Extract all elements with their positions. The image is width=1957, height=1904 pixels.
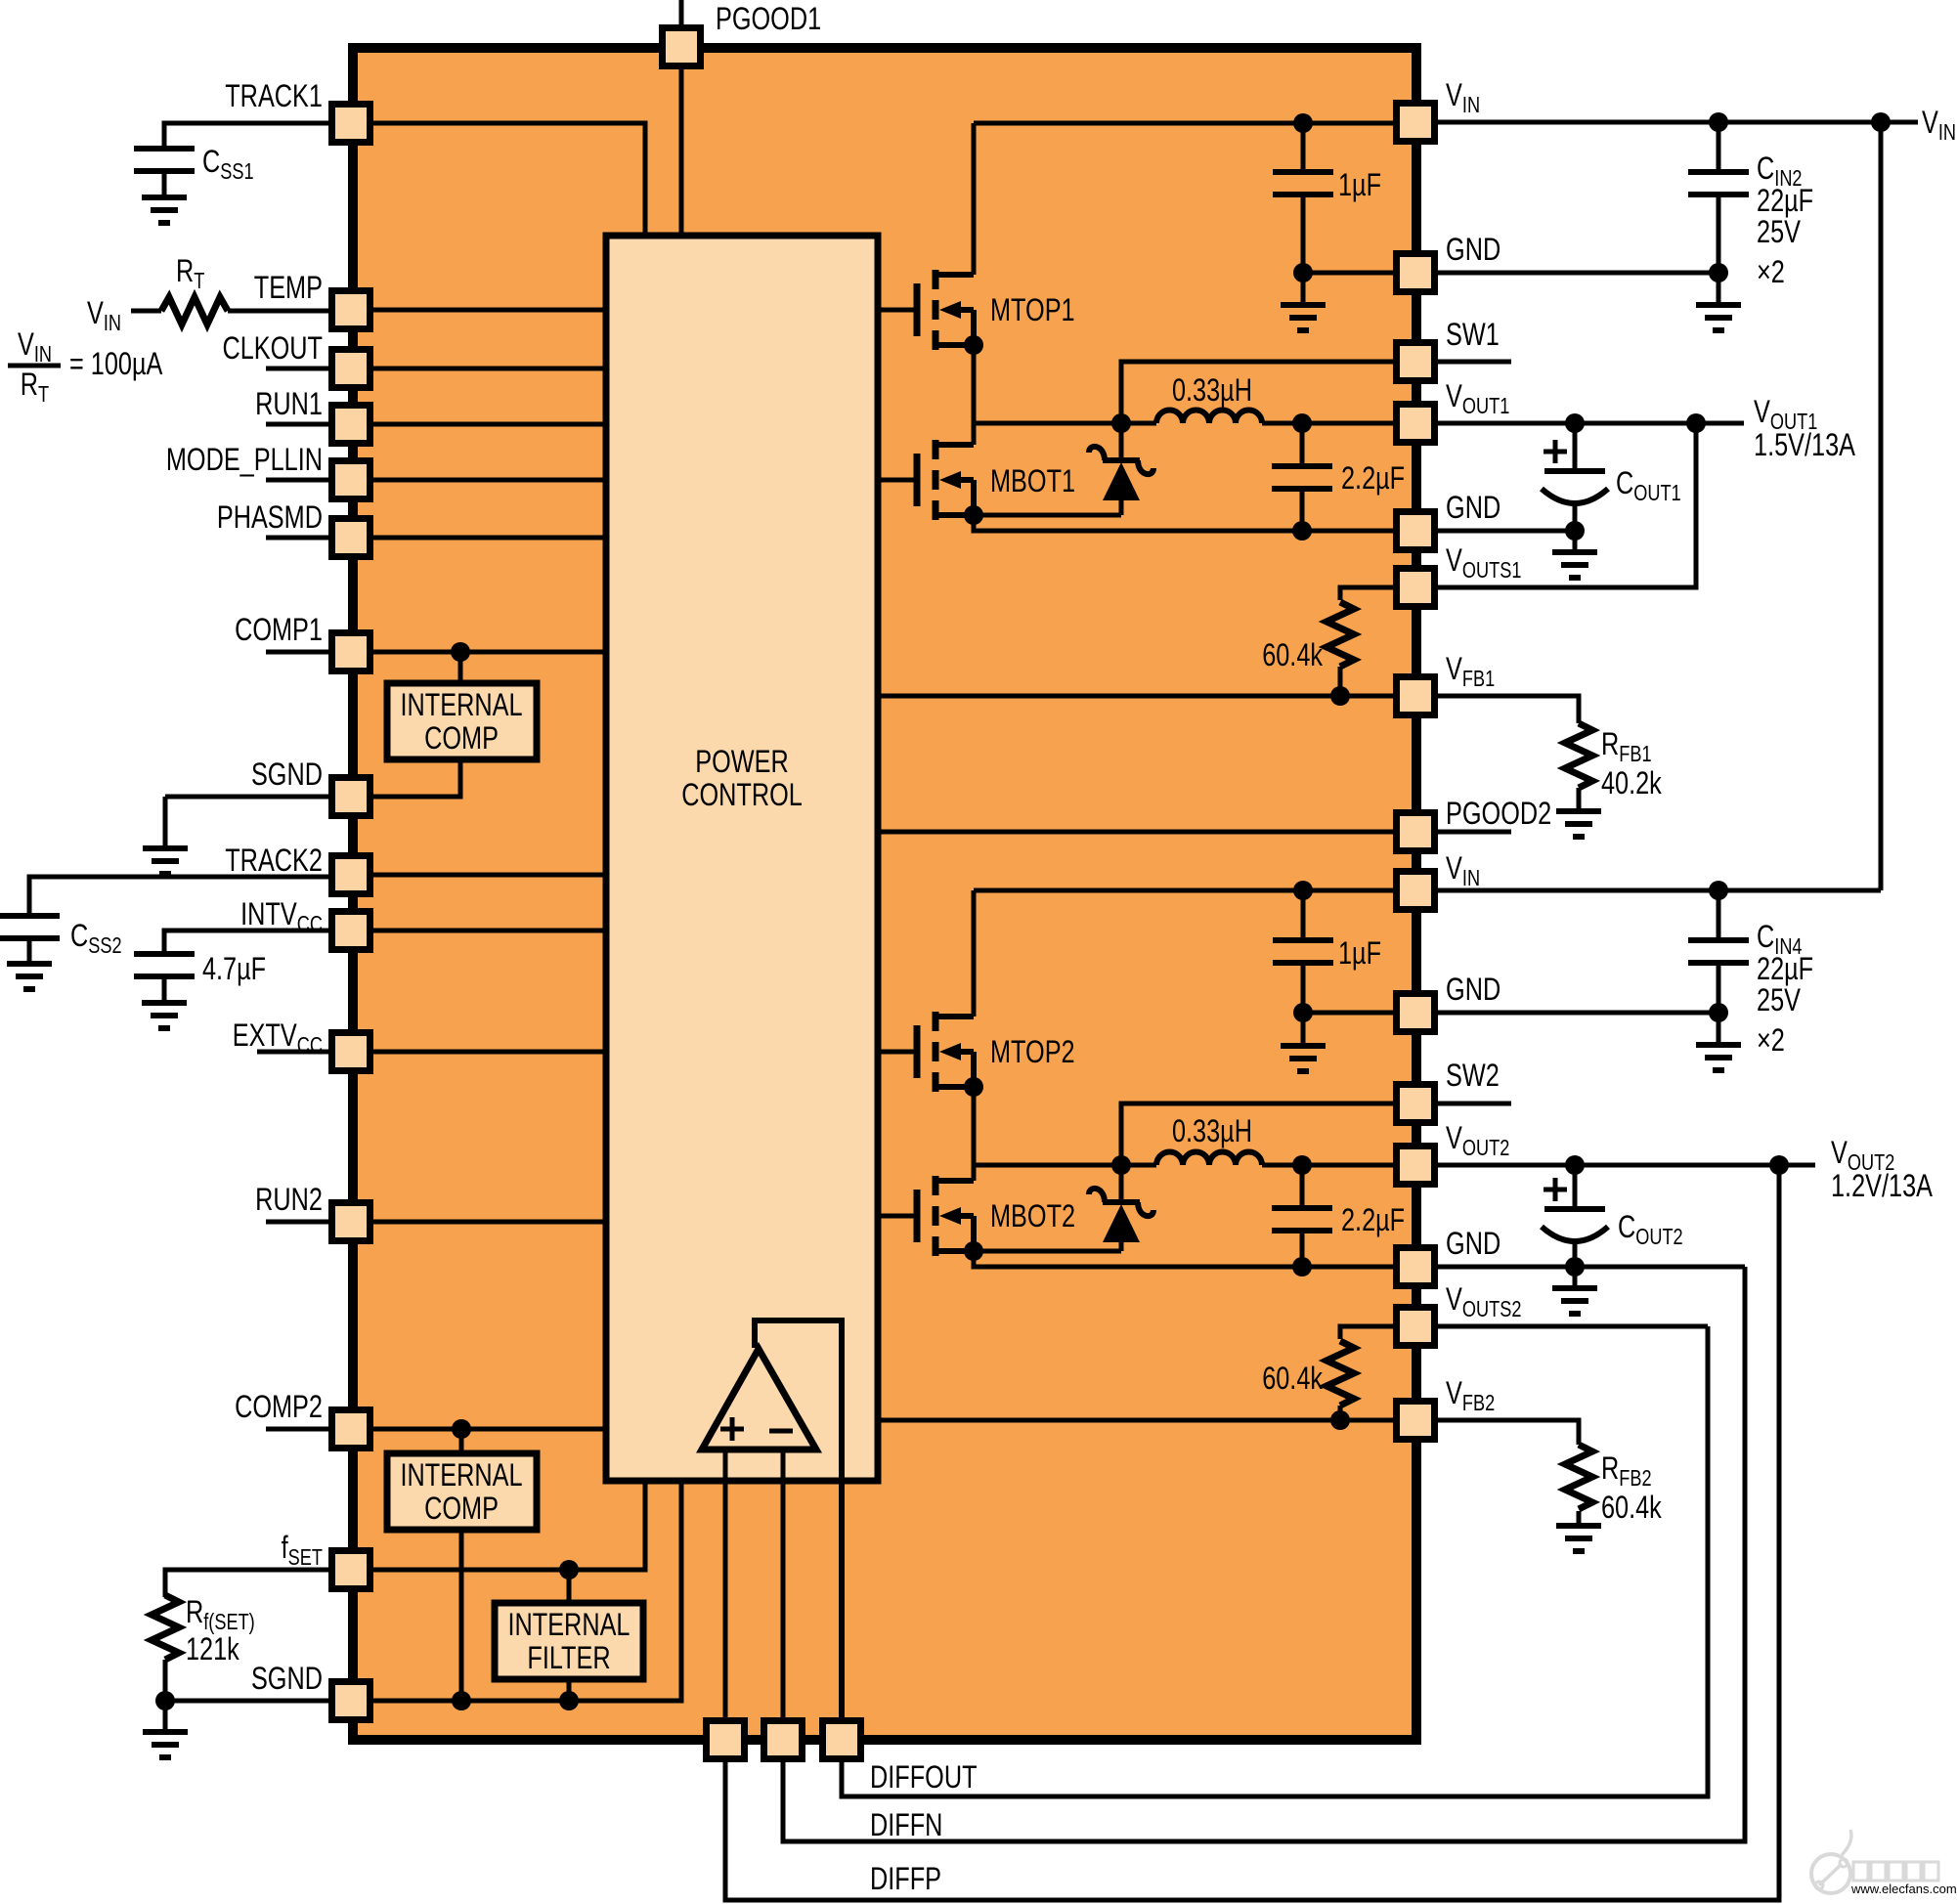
- svg-text:COMP: COMP: [424, 1492, 499, 1527]
- svg-text:RUN2: RUN2: [255, 1183, 323, 1218]
- svg-text:60.4k: 60.4k: [1262, 638, 1323, 673]
- svg-text:SGND: SGND: [251, 1662, 323, 1697]
- svg-text:SW2: SW2: [1446, 1059, 1500, 1094]
- svg-text:COMP: COMP: [424, 721, 499, 757]
- svg-text:×2: ×2: [1757, 255, 1785, 290]
- svg-text:PHASMD: PHASMD: [217, 500, 323, 536]
- svg-text:×2: ×2: [1757, 1023, 1785, 1059]
- svg-text:INTERNAL: INTERNAL: [401, 688, 523, 723]
- svg-text:22µF: 22µF: [1757, 184, 1813, 219]
- svg-text:1µF: 1µF: [1338, 936, 1381, 972]
- svg-text:= 100µA: = 100µA: [69, 347, 163, 382]
- svg-text:POWER: POWER: [695, 745, 788, 780]
- svg-text:1.5V/13A: 1.5V/13A: [1754, 428, 1856, 463]
- svg-text:www.elecfans.com: www.elecfans.com: [1850, 1882, 1957, 1896]
- svg-text:1µF: 1µF: [1338, 168, 1381, 203]
- svg-text:FILTER: FILTER: [527, 1641, 610, 1676]
- svg-text:DIFFN: DIFFN: [870, 1808, 942, 1843]
- svg-text:0.33µH: 0.33µH: [1172, 373, 1252, 409]
- svg-text:2.2µF: 2.2µF: [1341, 461, 1405, 497]
- svg-text:25V: 25V: [1757, 215, 1802, 250]
- svg-text:TRACK1: TRACK1: [225, 79, 323, 114]
- svg-text:DIFFP: DIFFP: [870, 1862, 941, 1897]
- svg-text:CLKOUT: CLKOUT: [222, 331, 323, 367]
- svg-text:1.2V/13A: 1.2V/13A: [1831, 1169, 1934, 1204]
- svg-text:PGOOD2: PGOOD2: [1446, 797, 1551, 832]
- svg-text:COMP1: COMP1: [235, 613, 323, 648]
- svg-text:MODE_PLLIN: MODE_PLLIN: [166, 443, 323, 478]
- svg-text:MBOT1: MBOT1: [990, 464, 1075, 499]
- svg-text:MBOT2: MBOT2: [990, 1199, 1075, 1234]
- svg-text:TRACK2: TRACK2: [225, 844, 323, 879]
- svg-text:60.4k: 60.4k: [1601, 1491, 1662, 1526]
- svg-text:SW1: SW1: [1446, 318, 1500, 353]
- svg-text:CONTROL: CONTROL: [681, 778, 803, 813]
- svg-text:DIFFOUT: DIFFOUT: [870, 1760, 978, 1796]
- svg-text:25V: 25V: [1757, 983, 1802, 1018]
- svg-text:TEMP: TEMP: [254, 271, 323, 306]
- svg-text:60.4k: 60.4k: [1262, 1362, 1323, 1397]
- svg-text:40.2k: 40.2k: [1601, 766, 1662, 801]
- svg-text:2.2µF: 2.2µF: [1341, 1203, 1405, 1238]
- svg-text:GND: GND: [1446, 233, 1500, 268]
- svg-text:MTOP2: MTOP2: [990, 1035, 1075, 1070]
- svg-text:MTOP1: MTOP1: [990, 293, 1075, 328]
- svg-text:GND: GND: [1446, 1227, 1500, 1262]
- svg-text:4.7µF: 4.7µF: [202, 952, 266, 987]
- svg-text:121k: 121k: [186, 1632, 239, 1667]
- svg-text:INTERNAL: INTERNAL: [401, 1458, 523, 1493]
- svg-text:COMP2: COMP2: [235, 1390, 323, 1425]
- svg-text:PGOOD1: PGOOD1: [716, 2, 821, 37]
- svg-text:0.33µH: 0.33µH: [1172, 1114, 1252, 1149]
- svg-text:GND: GND: [1446, 973, 1500, 1008]
- svg-text:RUN1: RUN1: [255, 387, 323, 422]
- svg-text:GND: GND: [1446, 491, 1500, 526]
- svg-text:INTERNAL: INTERNAL: [507, 1608, 630, 1643]
- svg-text:SGND: SGND: [251, 757, 323, 793]
- svg-text:22µF: 22µF: [1757, 952, 1813, 987]
